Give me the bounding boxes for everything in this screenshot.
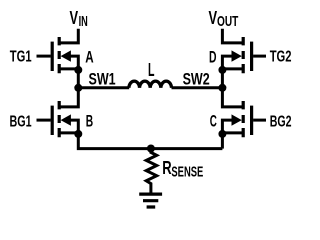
svg-text:V: V xyxy=(70,8,79,28)
transistor Q-C body arrow xyxy=(232,114,242,125)
transistor Q-C gate lead wire to BG2 xyxy=(253,119,266,122)
wire body tail of switch D xyxy=(222,56,232,70)
node SW1 junction dot xyxy=(74,84,82,92)
node source-body junction of B xyxy=(74,130,82,138)
wire A source to SW1 xyxy=(77,70,80,88)
wire body tail of switch B xyxy=(70,120,78,134)
svg-text:BG2: BG2 xyxy=(270,113,292,130)
wire body tail of switch A xyxy=(70,56,78,70)
svg-text:OUT: OUT xyxy=(217,14,238,30)
svg-text:C: C xyxy=(210,113,217,131)
wire body tail of switch C xyxy=(222,120,232,134)
transistor Q-D (TG2 switch D) gate bar xyxy=(250,42,253,71)
svg-text:D: D xyxy=(209,49,217,67)
wire SW2 to switch C drain xyxy=(222,88,243,107)
wire bottom rail right half xyxy=(151,147,222,150)
wire C source to bottom rail xyxy=(221,134,224,149)
transistor Q-D source stub xyxy=(222,67,243,70)
transistor Q-A gate lead wire to TG1 xyxy=(37,55,51,58)
wire SW1 to switch B drain xyxy=(59,88,78,107)
svg-text:TG1: TG1 xyxy=(10,48,32,65)
svg-text:SW2: SW2 xyxy=(183,71,210,89)
transistor Q-A (TG1 switch A) gate bar xyxy=(51,42,54,71)
transistor Q-B gate lead wire to BG1 xyxy=(37,119,51,122)
wire SW1 to inductor xyxy=(78,86,129,89)
svg-text:L: L xyxy=(148,60,155,80)
wire B source to bottom rail xyxy=(78,134,151,149)
node SW2 junction dot xyxy=(218,84,226,92)
svg-text:R: R xyxy=(162,158,171,178)
node source-body junction of D xyxy=(218,66,226,74)
transistor Q-D body arrow xyxy=(232,50,242,61)
svg-text:A: A xyxy=(85,49,94,67)
transistor Q-C source stub xyxy=(222,131,243,134)
svg-text:V: V xyxy=(209,8,218,28)
wire D source to SW2 xyxy=(221,70,224,88)
transistor Q-B channel segments xyxy=(58,101,61,137)
svg-text:B: B xyxy=(86,113,93,131)
transistor Q-A source stub xyxy=(59,67,78,70)
transistor Q-D channel segments xyxy=(242,37,245,73)
transistor Q-A body arrow xyxy=(61,50,71,61)
node source-body junction of C xyxy=(218,130,226,138)
transistor Q-C (BG2 switch C) gate bar xyxy=(250,106,253,135)
wire VIN lead to switch A drain xyxy=(59,29,78,43)
inductor L winding xyxy=(129,81,172,88)
svg-text:SENSE: SENSE xyxy=(171,163,203,180)
transistor Q-C channel segments xyxy=(242,101,245,137)
transistor Q-B source stub xyxy=(59,131,78,134)
transistor Q-A channel segments xyxy=(58,37,61,73)
wire inductor to SW2 xyxy=(172,86,223,89)
resistor RSENSE zigzag xyxy=(146,149,157,193)
svg-text:BG1: BG1 xyxy=(10,113,32,130)
transistor Q-B body arrow xyxy=(61,114,71,125)
svg-text:IN: IN xyxy=(79,14,88,30)
svg-text:SW1: SW1 xyxy=(89,71,116,89)
ground symbol xyxy=(139,194,162,207)
transistor Q-B (BG1 switch B) gate bar xyxy=(51,106,54,135)
transistor Q-D gate lead wire to TG2 xyxy=(253,55,266,58)
node RSENSE junction dot xyxy=(147,145,155,153)
wire VOUT lead to switch D drain xyxy=(222,29,243,43)
svg-text:TG2: TG2 xyxy=(270,49,292,66)
node source-body junction of A xyxy=(74,66,82,74)
